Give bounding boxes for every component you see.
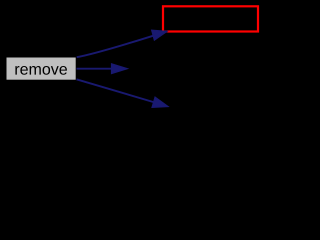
node remove (current function, grey) [6,57,77,81]
wire edge1 to red node [77,30,168,57]
node truncated (red border, label hidden on black) [163,6,258,31]
wire edge3 to bottom hidden node [77,79,169,107]
wire edge2 to middle hidden node [77,64,128,74]
